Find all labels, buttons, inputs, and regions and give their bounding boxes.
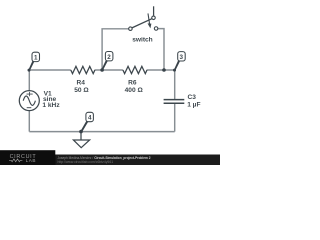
svg-text:1: 1	[34, 55, 38, 62]
svg-text:2: 2	[107, 54, 111, 61]
capacitor C3	[164, 100, 185, 104]
footer caption bar	[0, 155, 220, 166]
voltage source V1	[19, 91, 39, 111]
wire: right vertical above C3	[174, 69, 176, 99]
ground	[73, 132, 89, 148]
logo resistor zigzag	[9, 159, 22, 162]
resistor R6	[123, 66, 147, 73]
wire: left vertical below V1	[28, 111, 30, 132]
wire: node2 branch up and right to switch	[102, 29, 128, 70]
footer logo box	[0, 150, 55, 165]
svg-text:R4: R4	[76, 79, 85, 86]
wire: switch right terminal to top wire	[158, 29, 164, 70]
svg-text:switch: switch	[132, 37, 153, 44]
svg-text:3: 3	[179, 54, 183, 61]
switch toggle arrow	[148, 13, 150, 24]
wire: right vertical below C3	[174, 103, 176, 131]
svg-text:R6: R6	[128, 79, 137, 86]
svg-text:LAB: LAB	[26, 158, 36, 163]
switch left terminal	[129, 27, 133, 31]
node tag 2	[101, 52, 113, 71]
svg-text:4: 4	[88, 115, 92, 122]
svg-text:1 µF: 1 µF	[187, 101, 200, 108]
node 1 corner blob	[28, 69, 31, 72]
switch top terminal	[152, 16, 156, 20]
svg-text:http://www.circuitlab.com/c6bt: http://www.circuitlab.com/c6btz4y561	[58, 160, 114, 164]
node tag 4	[80, 112, 93, 132]
node tag 1	[28, 52, 39, 70]
svg-text:C3: C3	[188, 94, 197, 101]
junction ground	[79, 130, 83, 134]
switch SW lever	[132, 19, 152, 28]
wire: bottom horizontal	[29, 131, 174, 133]
node 3 corner blob	[173, 69, 176, 72]
junction switch drop	[162, 68, 166, 72]
svg-text:50 Ω: 50 Ω	[74, 87, 89, 94]
svg-text:1 kHz: 1 kHz	[42, 102, 60, 109]
junction node2	[100, 68, 104, 72]
resistor R4	[71, 66, 95, 73]
wire: top segment node1 to R4	[29, 69, 71, 71]
svg-text:400 Ω: 400 Ω	[125, 87, 144, 94]
switch actuator stub	[153, 6, 155, 15]
wire: left vertical above V1	[28, 69, 30, 90]
wire: top segment R6 to node3 corner	[147, 69, 175, 71]
switch right terminal	[154, 27, 158, 31]
node tag 3	[174, 52, 185, 71]
wire: top segment R4 to R6	[95, 69, 123, 71]
